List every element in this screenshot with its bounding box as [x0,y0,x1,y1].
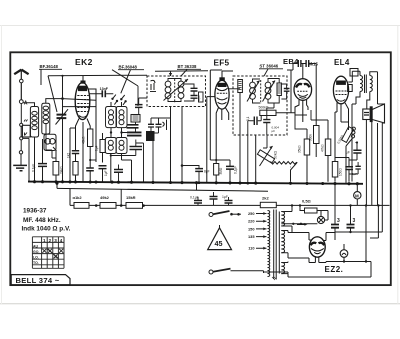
coil L2 former [42,103,50,134]
EB4 grid dashes [297,90,308,92]
resistor R7 [325,139,331,156]
output transformer primary [360,76,362,92]
EL4 grids [336,91,347,95]
tap labels [248,211,255,251]
svg-text:3: 3 [54,238,57,243]
pointer diagonal to trimmer [48,76,57,112]
svg-text:110: 110 [248,246,254,251]
secondary connections [281,206,292,233]
svg-text:2k2: 2k2 [262,195,269,200]
svg-text:EL4: EL4 [334,58,350,67]
wire field supply [382,104,384,206]
svg-text:250: 250 [248,211,255,216]
svg-text:500kΩ: 500kΩ [259,106,269,110]
wire grid4 through tube [63,99,97,101]
volume potentiometer P1 [257,150,274,163]
svg-text:0,1μF: 0,1μF [234,166,238,174]
wire resistor row [70,204,390,206]
capacitor C22 [210,197,218,200]
wire L2 top to grid line [46,99,63,104]
resistor R3 block [147,132,155,141]
mains switch S2 [209,270,213,274]
small junction box [350,69,358,77]
EK2 anode block [79,86,87,90]
EZ2 leads [288,256,319,262]
resistor R9 150ohm [332,162,338,178]
wire R8 top [341,104,349,130]
EF5 leads [207,97,229,184]
capacitor C7 [135,105,143,108]
coil L5 [119,110,124,115]
EF5 grid dashes [217,92,227,94]
IFT2 trimmer arrow 1 [247,81,260,102]
EF5 top cap [220,78,224,81]
wire pot top [263,135,267,148]
EZ2 anode feed [309,233,335,241]
wires to speaker [352,104,367,128]
IFT2 detector capacitor C14 [263,120,270,123]
wire jack to ground [20,126,22,150]
tube EB4 envelope [294,79,312,101]
wire cathode net [335,158,357,161]
EB4 anode wings [296,84,302,88]
coil former lower [105,138,116,154]
svg-text:EZ2.: EZ2. [325,265,344,274]
IFT1 capacitor Ca [191,88,198,91]
antenna [20,71,22,100]
svg-text:BELL 374 ~: BELL 374 ~ [16,276,60,285]
node A [19,100,23,104]
svg-text:2: 2 [49,238,52,243]
bus junction dots [33,180,359,185]
EK2 cathode arc [79,116,87,118]
wire screen feed [311,110,328,120]
resistor R17 [73,162,78,176]
EB4 top wire [302,64,304,79]
coil L4 [109,110,114,115]
IFT1 pointer from BT label [181,70,187,77]
coil L1 former [30,107,38,138]
IFT2 resistor block 2 [277,83,281,96]
capacitor C4 [38,164,47,167]
svg-text:1: 1 [43,238,46,243]
wire heater line [281,223,317,225]
wire sec to bottom [371,122,373,206]
coil L1 loops [32,111,37,115]
speaker bar [370,107,372,122]
field coil diagonal [351,127,355,140]
primary taps [256,214,267,249]
EK2 leads [70,119,79,182]
capacitor C16 [306,60,309,67]
IFT2 trimmer arrow 2 [263,81,276,102]
capacitor C9b [130,147,143,150]
IFT2 coil Ld [265,82,271,88]
svg-text:EK2: EK2 [75,57,93,67]
coil L3 wave band [44,134,56,150]
svg-text:0,5Ω: 0,5Ω [302,199,312,204]
wire speaker frame return [365,120,367,206]
output transformer secondary [370,76,372,92]
wire jack branch to bus [23,138,29,181]
svg-text:150: 150 [248,226,255,231]
wire bottom rail [288,262,371,278]
meter M1 [354,192,361,199]
secondary winding HT top [281,212,284,226]
svg-text:45: 45 [215,239,223,248]
svg-text:4: 4 [60,238,63,243]
tube EK2 envelope [75,82,90,119]
svg-text:M: M [355,194,359,199]
speaker magnet [363,109,370,120]
svg-text:15kR: 15kR [126,195,136,200]
pointer line from BF.36148 [40,70,42,86]
wire HT rail [335,232,382,240]
svg-text:MF. 448 kHz.: MF. 448 kHz. [23,217,61,224]
EF5 grid lead left [207,70,222,160]
wire top cap chain [287,64,316,121]
resistor R8 grid slanted [342,127,354,143]
output transformer core [365,75,367,94]
wire bus drop left [57,183,70,205]
svg-text:8μF: 8μF [204,170,210,174]
IFT1 input stub [155,71,208,76]
capacitor C11 [156,124,162,127]
trimmer capacitor C5 [57,115,67,119]
svg-text:ST 36046: ST 36046 [260,64,279,69]
capacitor C29 [72,151,79,154]
lamp arrow [297,224,306,226]
secondary winding mid [281,231,284,253]
table x marks [42,249,63,259]
meter M2 [340,250,348,258]
transformer primary winding [268,211,270,277]
capacitor C19 [353,150,361,153]
coil L6 [108,140,113,145]
wire output HT [378,104,385,206]
resistor R15 [100,140,105,153]
svg-text:46kΩ: 46kΩ [82,136,86,144]
IFT1 trimmer arrow [164,79,189,101]
svg-text:EB4: EB4 [283,57,299,66]
wire EB4 cathode down [295,115,307,129]
capacitor C20 [345,167,353,170]
IFT2 dashed box [233,76,287,135]
wire grid2 through tube [63,106,97,108]
EZ2 anode wings [311,243,317,246]
svg-text:AU: AU [33,244,39,248]
IFT1 coil Lb [178,81,184,87]
svg-text:μF: μF [346,151,350,155]
svg-text:3MΩ: 3MΩ [219,167,223,174]
tube EF5 envelope [215,80,229,109]
svg-text:LO.: LO. [33,256,39,260]
svg-text:220: 220 [248,219,255,224]
svg-text:50kΩ: 50kΩ [274,151,278,159]
IFT2 core [260,80,262,104]
svg-text:1k2: 1k2 [67,153,71,158]
triangle 45 [208,228,232,250]
svg-text:1μF: 1μF [104,170,108,176]
capacitor C27 [99,166,107,169]
svg-text:Indk 1040 Ω p.V.: Indk 1040 Ω p.V. [22,226,71,233]
wire AVC line [46,123,56,158]
capacitor C6 13nF [102,90,105,97]
EL4 cathode [337,100,345,102]
capacitor C9d [127,132,142,135]
primary wires [356,92,360,105]
secondary return wire [278,212,280,274]
svg-text:35kΩ: 35kΩ [298,145,302,153]
wire mid row [57,188,268,191]
svg-text:A: A [24,101,28,107]
svg-text:Dμ4: Dμ4 [197,95,201,101]
tube EZ2 envelope [309,237,325,257]
wire L3 to R1 [55,151,57,162]
table grid [32,237,64,268]
IFT1 left trimmer [151,80,156,90]
svg-text:1μF: 1μF [352,172,357,176]
IFT2 pointer [264,69,268,76]
capacitor C20b [355,166,360,169]
EZ2 cathode arcs [311,248,324,251]
wire grid coupling [291,143,358,168]
capacitor C9c [114,170,123,173]
IFT2 resistor block [238,80,243,93]
EF5 screen arcs [217,88,228,100]
resistor R1 [53,162,59,176]
resistor R4 [214,164,219,176]
capacitor C13 [226,166,234,169]
wire L1 bottom to bus [34,137,36,182]
EL4 anode [337,81,346,84]
P1 wiper zigzag [271,162,297,165]
svg-text:49k2: 49k2 [100,195,110,200]
coil L7 [119,140,124,145]
svg-text:500k: 500k [309,134,313,141]
coil former upper [106,107,117,128]
aerial jack J1 [22,125,30,137]
trimmer box C8 [131,115,140,123]
capacitor C12 [163,122,165,127]
EF5 cathode [218,102,227,104]
wire top grid line [48,74,147,77]
secondary winding bottom [281,263,284,274]
IFT2 coil Lc [250,82,256,88]
IFT1 secondary leads [171,107,183,184]
EB4 leads [295,100,308,122]
dial lamp [317,216,324,223]
resistor R14 loop [305,208,318,213]
svg-text:TO.: TO. [33,261,39,265]
EL4 leads [337,103,349,123]
svg-text:α1k2: α1k2 [73,195,83,200]
IFT2 internal wires [253,79,287,104]
svg-text:1936-37: 1936-37 [23,208,47,215]
EF5 anode [218,83,226,86]
P1 arrow [260,146,273,166]
transformer core [274,210,277,280]
svg-text:BT 36338: BT 36338 [178,64,197,69]
IFT2 capacitor Cc [284,89,290,92]
wire antenna to jack [20,104,22,124]
wire grid node [62,76,64,182]
svg-text:GO.: GO. [33,250,39,254]
svg-text:μF: μF [272,129,276,133]
wire IFT2 down [255,135,257,182]
capacitor C28 [86,168,94,171]
pointer X from BF.36048 [112,70,138,94]
svg-text:135: 135 [248,234,255,239]
svg-text:1μ4: 1μ4 [95,145,99,151]
tube EL4 envelope [333,76,348,104]
svg-text:3: 3 [337,218,340,224]
capacitor C17 [254,117,257,126]
IFT1 internal wires [168,79,194,102]
IFT1 cap block [199,92,204,102]
capacitor C10 [148,124,154,127]
capacitor C9 [127,125,139,128]
table diagonal mark [48,249,59,258]
coil L2 loops [43,106,48,110]
electrolytic C25 [350,206,352,225]
resistor R16 [88,129,93,147]
svg-text:150Ω: 150Ω [339,168,343,176]
bus chassis [28,182,363,184]
wire screen rail [229,88,240,90]
wire row right drops [366,206,382,262]
svg-text:47kΩ: 47kΩ [321,144,325,152]
wire speaker return 1 [351,128,353,182]
capacitor C26 [195,169,203,172]
resistor R18 [314,126,320,144]
resistor R6 [304,139,310,155]
EB4 cathode [298,94,308,98]
svg-text:1μF: 1μF [222,195,228,199]
IFT1 dashed box [147,76,206,107]
BELL box [11,275,70,285]
IFT1 core [174,79,176,103]
band switch contacts [111,98,113,100]
svg-text:EF5: EF5 [214,59,230,68]
wires between coil decks [111,102,122,138]
svg-text:BF.36148: BF.36148 [40,64,59,69]
EK2 grids [77,96,88,112]
EK2 top cap [81,81,85,83]
wire speaker return 2 [345,160,347,184]
mains switch S1 [209,213,213,217]
svg-text:13nF: 13nF [100,87,109,91]
svg-text:BF.36048: BF.36048 [119,64,138,69]
wires coils to bus [111,154,132,182]
EL4 anode lead [348,71,360,82]
svg-text:0,1μF: 0,1μF [32,164,36,172]
wire L1 top to node A [23,103,34,107]
IFT1 coil La [165,81,171,87]
ground [13,165,27,170]
electrolytic C24 [334,184,336,224]
osc cap wires [122,98,148,133]
svg-text:3: 3 [353,218,356,224]
svg-text:0,1μF: 0,1μF [190,196,199,200]
capacitor C15 [298,60,301,67]
secondary wires [367,72,378,108]
speaker cone [372,104,384,123]
